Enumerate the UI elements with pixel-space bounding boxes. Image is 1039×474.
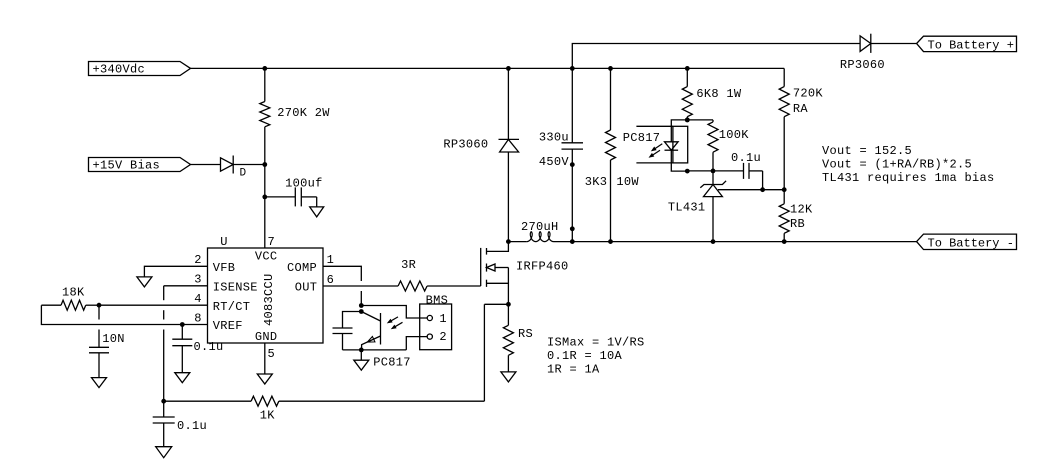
svg-text:COMP: COMP — [287, 261, 317, 275]
svg-text:PC817: PC817 — [373, 355, 411, 369]
capacitor comp cap — [343, 312, 362, 329]
resistor 18K — [41, 304, 61, 306]
wire collector top — [361, 306, 427, 319]
wire BMS2 return — [406, 337, 427, 350]
svg-text:RP3060: RP3060 — [443, 138, 488, 152]
node TL431 anode junction — [711, 239, 716, 244]
diode TL431 — [712, 171, 714, 185]
svg-text:330u: 330u — [539, 130, 569, 144]
wire to battery+ rail — [572, 44, 860, 69]
capacitor 100uf — [265, 196, 296, 198]
svg-text:IRFP460: IRFP460 — [516, 260, 569, 274]
svg-text:GND: GND — [255, 330, 278, 344]
node junction VREF — [180, 322, 185, 327]
svg-text:6K8 1W: 6K8 1W — [696, 87, 742, 101]
svg-text:RB: RB — [790, 217, 805, 231]
svg-text:VREF: VREF — [213, 319, 243, 333]
node junction 340V/RP3060 — [506, 66, 511, 71]
svg-text:0.1R = 10A: 0.1R = 10A — [547, 349, 623, 363]
wire pin1 COMP — [323, 266, 361, 281]
op-amp U1 UCC3804 IC box — [208, 248, 324, 343]
wire pin5 GND — [264, 343, 266, 374]
wire bottom return — [279, 400, 485, 402]
svg-text:ISENSE: ISENSE — [213, 280, 258, 294]
connector BMS box — [420, 304, 452, 350]
wire battery- rail — [572, 241, 916, 243]
svg-text:To Battery -: To Battery - — [928, 236, 1014, 250]
svg-text:0.1u: 0.1u — [731, 151, 761, 165]
capacitor 0.1u TL431 — [743, 163, 745, 179]
svg-text:U: U — [220, 235, 228, 249]
opto-LED pin stub upper — [636, 125, 673, 127]
resistor 720K RA — [783, 68, 785, 86]
connector pin 2 — [427, 334, 432, 339]
resistor 270K 2W — [264, 68, 266, 101]
svg-text:10W: 10W — [616, 175, 639, 189]
svg-text:4083CCU: 4083CCU — [262, 273, 276, 326]
svg-text:12K: 12K — [790, 203, 813, 217]
opto-transistor PC817 detector — [380, 313, 382, 345]
svg-text:3K3: 3K3 — [585, 175, 608, 189]
node ref/RA-RB junction — [782, 187, 787, 192]
node LED anode junction — [685, 118, 690, 123]
diode LED PC817 — [671, 120, 687, 142]
wire gate — [427, 285, 481, 287]
wire TL431 ref — [718, 189, 784, 191]
wire ISENSE vertical — [163, 286, 165, 300]
svg-text:100K: 100K — [719, 128, 750, 142]
svg-text:0.1u: 0.1u — [194, 340, 224, 354]
node drain junction — [506, 239, 511, 244]
node source junction — [506, 302, 511, 307]
node 330u mid junction 1 — [570, 162, 575, 167]
svg-text:450V: 450V — [539, 155, 570, 169]
svg-text:1: 1 — [327, 253, 335, 267]
net tag +340Vdc — [89, 62, 191, 76]
node COMP junction upper — [359, 303, 364, 308]
net tag To Battery - — [917, 234, 1017, 249]
node 3K3 bottom junction — [608, 239, 613, 244]
svg-text:2: 2 — [194, 253, 202, 267]
wire pin3 ISENSE — [164, 285, 208, 287]
node junction 340V/330u — [570, 66, 575, 71]
node junction 340V/6K8 — [685, 66, 690, 71]
svg-text:To Battery +: To Battery + — [928, 38, 1014, 52]
ground 100uf — [310, 207, 324, 217]
ground bottom cap — [156, 447, 172, 458]
capacitor 10N — [98, 305, 100, 319]
svg-text:TL431 requires 1ma bias: TL431 requires 1ma bias — [822, 171, 995, 185]
ground pin5 — [257, 374, 272, 384]
resistor 6K8 1W — [686, 68, 688, 86]
light arrow 2 into transistor — [393, 322, 402, 327]
transistor Q1 IRFP460 MOSFET — [480, 248, 482, 286]
connector pin 1 — [427, 315, 432, 320]
light arrow 2 out of LED — [651, 150, 660, 156]
resistor 1K — [164, 400, 251, 402]
svg-text:TL431: TL431 — [668, 201, 706, 215]
wire pin2 VFB to ground — [144, 266, 207, 277]
opto-LED PC817 box — [673, 126, 688, 163]
svg-text:VCC: VCC — [255, 250, 278, 264]
node emitter junction — [359, 348, 364, 353]
svg-text:RT/CT: RT/CT — [213, 300, 251, 314]
ground RS — [501, 372, 516, 382]
net tag To Battery + — [917, 36, 1017, 51]
wire pin6 OUT — [323, 285, 398, 287]
node RB bottom junction — [782, 239, 787, 244]
wire VREF loop — [41, 305, 182, 324]
node 100K bottom junction — [711, 169, 716, 174]
svg-text:RS: RS — [518, 327, 533, 341]
svg-text:RP3060: RP3060 — [840, 58, 885, 72]
svg-text:5: 5 — [268, 347, 276, 361]
resistor 12K RB — [783, 190, 785, 204]
node 330u bottom junction — [570, 239, 575, 244]
wire +340V rail — [191, 67, 785, 69]
light arrow 1 into transistor — [389, 317, 398, 322]
diode D — [221, 158, 234, 171]
capacitor 0.1u VREF — [181, 325, 183, 340]
node COMP junction lower — [359, 309, 364, 314]
node junction 100uf — [262, 195, 267, 200]
wire emitter bottom — [343, 349, 407, 351]
svg-text:720K: 720K — [793, 86, 824, 100]
svg-text:VFB: VFB — [213, 261, 236, 275]
svg-text:270uH: 270uH — [521, 220, 559, 234]
svg-text:8: 8 — [194, 311, 202, 325]
node junction ISENSE bottom — [161, 399, 166, 404]
resistor 3K3 10W — [610, 68, 612, 130]
inductor 270uH — [508, 241, 526, 243]
ground VFB — [137, 277, 152, 287]
wire 6K8 to 100K top — [687, 119, 713, 121]
svg-text:+340Vdc: +340Vdc — [93, 63, 146, 77]
svg-text:6: 6 — [327, 273, 335, 287]
svg-text:0.1u: 0.1u — [177, 419, 207, 433]
svg-text:Vout = 152.5: Vout = 152.5 — [822, 144, 912, 158]
svg-text:Vout = (1+RA/RB)*2.5: Vout = (1+RA/RB)*2.5 — [822, 158, 972, 172]
node LED cathode junction — [685, 169, 690, 174]
svg-text:BMS: BMS — [426, 293, 449, 307]
svg-text:2: 2 — [439, 330, 447, 344]
net tag +15V Bias — [89, 158, 191, 172]
resistor 100K — [712, 120, 714, 122]
node junction 340V/3K3 — [608, 66, 613, 71]
node junction RT/CT — [97, 303, 102, 308]
wire RT/CT — [99, 304, 208, 306]
svg-text:10N: 10N — [102, 332, 125, 346]
diode RP3060 vertical snubber — [507, 68, 509, 139]
svg-text:RA: RA — [793, 102, 809, 116]
svg-text:100uf: 100uf — [285, 176, 323, 190]
svg-text:+15V Bias: +15V Bias — [93, 159, 161, 173]
resistor 3R — [398, 281, 427, 291]
svg-text:3: 3 — [194, 273, 202, 287]
ground VREF cap — [175, 373, 190, 383]
svg-text:PC817: PC817 — [623, 131, 661, 145]
wire VCC column — [264, 165, 266, 249]
diode RP3060 top — [860, 36, 871, 52]
svg-text:270K 2W: 270K 2W — [277, 106, 330, 120]
ground 10N — [92, 378, 107, 388]
wire bias to diode — [191, 164, 221, 166]
ground PC817 emitter — [360, 350, 362, 360]
node junction bias/VCC — [262, 162, 267, 167]
capacitor 0.1u bottom — [163, 401, 165, 417]
resistor RS — [507, 304, 509, 325]
svg-text:1: 1 — [439, 312, 447, 326]
svg-text:1R = 1A: 1R = 1A — [547, 362, 600, 376]
wire cathode node — [687, 170, 743, 172]
svg-text:D: D — [240, 167, 247, 179]
svg-text:ISMax = 1V/RS: ISMax = 1V/RS — [547, 336, 645, 350]
wire diode to tag — [871, 43, 917, 45]
node junction 340V/270K — [262, 66, 267, 71]
node 330u mid junction 2 — [570, 226, 575, 231]
svg-text:4: 4 — [194, 292, 202, 306]
svg-text:1K: 1K — [260, 408, 276, 422]
capacitor 330u 450V — [571, 68, 573, 142]
svg-text:7: 7 — [268, 235, 276, 249]
node ref/cap junction — [760, 187, 765, 192]
wire pin8 VREF — [182, 324, 207, 326]
svg-text:3R: 3R — [401, 258, 416, 272]
svg-text:OUT: OUT — [295, 280, 318, 294]
opto-LED pin stub lower — [636, 162, 673, 164]
wire diode to VCC column — [233, 164, 265, 166]
svg-text:18K: 18K — [62, 286, 85, 300]
light arrow 1 out of LED — [653, 144, 662, 150]
node 6K8 bottom junction — [685, 118, 690, 123]
